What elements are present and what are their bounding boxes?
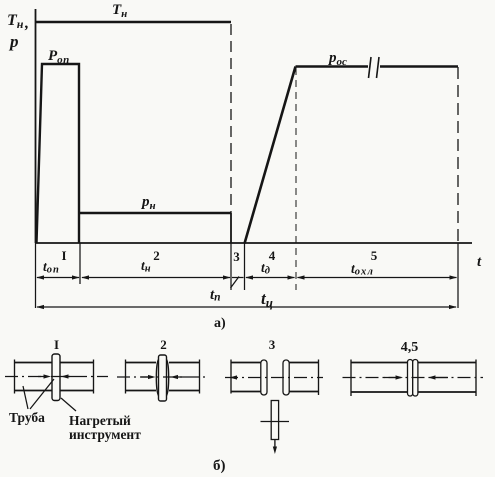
left pipe end tick [14, 360, 16, 394]
right pipe end tick [93, 360, 95, 394]
y-axis extension below x-axis [35, 243, 37, 308]
dashed extension x=296 (zone 4/5 boundary) [295, 68, 297, 290]
right pipe walls [289, 362, 319, 364]
arrow right (pointing left at tool) [68, 376, 74, 378]
double bead left [408, 360, 413, 397]
arrow pointing left at left tick [230, 375, 238, 379]
leader line for tп [231, 277, 240, 289]
leader lines from Труба [23, 379, 54, 409]
svg-text:3: 3 [233, 249, 240, 264]
svg-text:инструмент: инструмент [69, 427, 141, 442]
leader line from Нагретый инструмент [61, 398, 76, 411]
double bead right [413, 360, 418, 397]
cross line on tool [261, 421, 290, 423]
right pipe walls [60, 362, 94, 364]
left bead [156, 360, 158, 396]
arrow left (pointing right at tool) [38, 376, 44, 378]
curve Рос plateau (with break) [296, 65, 459, 67]
centerline [343, 377, 484, 379]
curve Рос rising diagonal [245, 67, 296, 244]
left pipe walls [126, 362, 157, 364]
extension x=458 below axis [457, 243, 459, 308]
drop of рн to axis at x=231 [230, 213, 232, 243]
curve Тн (top temperature line) [36, 21, 231, 24]
schematic 4,5: joined pipe with double bead [343, 340, 484, 396]
curve Роп pulse [37, 64, 80, 243]
arrow left (pointing right) [384, 377, 395, 379]
svg-text:4,5: 4,5 [401, 340, 419, 355]
left pipe end tick [125, 360, 127, 394]
svg-text:I: I [54, 337, 59, 352]
left pipe walls [15, 362, 53, 364]
dimension row 1: tоп segment [36, 275, 79, 279]
x-axis [36, 242, 473, 244]
pipe walls [351, 362, 408, 364]
right pipe end tick [318, 360, 320, 396]
extension line x=244.5 below axis [244, 243, 246, 290]
svg-text:5: 5 [371, 248, 378, 263]
dash-dot drop line at end of Тн (x=231) [230, 24, 232, 213]
arrow right [178, 376, 186, 378]
dimension row 1: tохл segment [297, 275, 457, 279]
left pipe end tick [350, 360, 352, 397]
schematic 1: heated tool between pipes [5, 337, 108, 401]
dimension row 2: tц overall [36, 305, 457, 309]
extension line x=80 below axis [79, 243, 81, 284]
svg-text:2: 2 [153, 248, 160, 263]
arrow right (pointing left) [436, 377, 448, 379]
svg-text:4: 4 [269, 248, 276, 263]
dimension row 1: tд segment [245, 275, 295, 279]
label Нагретый инструмент [69, 413, 141, 442]
right bead [167, 360, 169, 396]
dimension row 1: tн segment [81, 275, 230, 279]
removed tool below schematic 3 [261, 401, 290, 455]
dashed drop x=458 (end of plateau) [457, 67, 459, 243]
svg-text:3: 3 [269, 337, 276, 352]
y-axis [35, 9, 37, 243]
right pipe bead [283, 360, 289, 395]
break symbol ticks [369, 57, 380, 78]
extension line x=231 below axis [230, 243, 232, 290]
schematic 2: pipes pressed on tool with beads [117, 337, 206, 401]
svg-text:б): б) [213, 458, 226, 474]
left pipe walls [231, 362, 262, 364]
schematic 3: pipes separated, tool removed [225, 337, 323, 395]
arrow left [141, 376, 148, 378]
svg-text:2: 2 [160, 337, 167, 352]
svg-text:I: I [61, 248, 66, 263]
centerline [5, 376, 108, 378]
right pipe end tick [475, 360, 477, 397]
left pipe end tick [230, 360, 232, 394]
centerline [225, 377, 323, 379]
right pipe walls [169, 362, 200, 364]
tool (vertical capsule) [52, 354, 60, 401]
svg-text:р: р [8, 32, 19, 51]
y-axis label Tн, p [7, 12, 29, 51]
svg-text:а): а) [214, 316, 226, 331]
left pipe bead [261, 360, 267, 395]
svg-text:Нагретый: Нагретый [69, 413, 131, 428]
right pipe end tick [199, 360, 201, 394]
centerline [117, 376, 206, 378]
tool [159, 355, 167, 401]
curve рн (low pressure line) [79, 212, 231, 214]
downward arrow [274, 440, 276, 448]
dimension row 1: zone 3 segment [232, 277, 244, 279]
svg-text:Труба: Труба [9, 410, 45, 425]
